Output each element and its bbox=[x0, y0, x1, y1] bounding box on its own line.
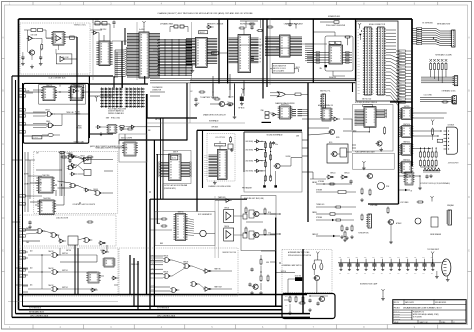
border ruler ticks bbox=[32, 2, 34, 6]
svg-text:88: 88 bbox=[141, 66, 143, 68]
svg-text:D2: D2 bbox=[260, 45, 262, 47]
svg-text:MIC: MIC bbox=[285, 305, 287, 307]
lcd tube q bbox=[367, 173, 372, 178]
svg-text:SMT: SMT bbox=[212, 53, 215, 55]
note box u18 bbox=[272, 64, 294, 74]
char bundle wires bbox=[302, 109, 308, 111]
svg-text:BD2: BD2 bbox=[399, 57, 402, 59]
lm com box bbox=[56, 54, 72, 64]
svg-text:SCL0: SCL0 bbox=[204, 155, 207, 157]
svg-text:SCL5: SCL5 bbox=[204, 166, 207, 168]
jack q1 bbox=[254, 211, 259, 216]
svg-text:88: 88 bbox=[219, 173, 221, 175]
sw ant bbox=[317, 254, 319, 258]
bus wrap y317 bbox=[12, 316, 310, 318]
svg-text:BD5: BD5 bbox=[399, 67, 402, 69]
svg-text:88: 88 bbox=[407, 177, 409, 179]
edge conn strip left bbox=[365, 27, 372, 95]
counter vert runs bbox=[24, 152, 26, 212]
svg-text:RED/BLUE: RED/BLUE bbox=[329, 77, 336, 79]
ground g1 bbox=[22, 62, 24, 64]
svg-text:SMT09: SMT09 bbox=[404, 106, 410, 108]
svg-text:88: 88 bbox=[281, 43, 283, 45]
bus wire x267 bbox=[266, 19, 268, 87]
svg-text:88: 88 bbox=[141, 37, 143, 39]
wire center v bbox=[212, 76, 214, 96]
shift right wires bbox=[343, 52, 353, 54]
svg-text:BD6: BD6 bbox=[399, 102, 402, 104]
svg-text:74HC02: 74HC02 bbox=[48, 251, 54, 253]
svg-text:VCC: VCC bbox=[190, 91, 193, 93]
svg-text:88: 88 bbox=[324, 111, 326, 113]
main frame bottom bbox=[19, 294, 308, 296]
sw resistors bbox=[313, 263, 316, 269]
svg-text:88: 88 bbox=[110, 130, 112, 132]
nmi ic U25 bbox=[176, 214, 186, 241]
left wires 3 bbox=[23, 229, 37, 231]
svg-text:88: 88 bbox=[177, 224, 179, 226]
svg-text:88: 88 bbox=[126, 150, 128, 152]
fan drop v bbox=[114, 50, 116, 78]
svg-text:STROBE: STROBE bbox=[316, 190, 322, 192]
thick v x202 bbox=[202, 130, 204, 188]
svg-text:88: 88 bbox=[101, 49, 103, 51]
bus wire x130 set bbox=[129, 255, 131, 295]
svg-text:P13: P13 bbox=[358, 66, 361, 68]
wire top h1 bbox=[90, 29, 102, 31]
svg-text:88: 88 bbox=[90, 280, 92, 282]
bus wire x263 bbox=[262, 19, 264, 98]
ic U11 bbox=[88, 272, 99, 283]
svg-text:88: 88 bbox=[170, 172, 172, 174]
kb row connector bbox=[452, 30, 455, 47]
alt sync box bbox=[282, 250, 332, 293]
svg-text:88: 88 bbox=[324, 116, 326, 118]
amp box1 bbox=[224, 210, 234, 223]
glue wires a bbox=[186, 118, 188, 140]
svg-text:74HC04: 74HC04 bbox=[224, 226, 229, 228]
svg-text:ULA DECODER: ULA DECODER bbox=[56, 217, 69, 220]
transistor Q3 bbox=[329, 129, 334, 134]
svg-text:88: 88 bbox=[101, 54, 103, 56]
jack r4 bbox=[245, 228, 247, 233]
lcd option box bbox=[207, 134, 235, 182]
svg-text:LM COM: LM COM bbox=[62, 57, 69, 59]
svg-text:88: 88 bbox=[281, 40, 283, 42]
svg-text:88: 88 bbox=[141, 61, 143, 63]
svg-text:INTERFACE: INTERFACE bbox=[209, 120, 219, 123]
bus wire x150 bbox=[149, 199, 151, 310]
label box bl bbox=[32, 136, 42, 139]
svg-text:TIMET OUT: TIMET OUT bbox=[214, 287, 222, 289]
svg-text:74HC02: 74HC02 bbox=[48, 285, 54, 287]
svg-text:88: 88 bbox=[197, 56, 199, 58]
svg-text:8097 in COMPE: 8097 in COMPE bbox=[121, 138, 132, 140]
svg-text:SCL1: SCL1 bbox=[204, 157, 207, 159]
svg-text:88: 88 bbox=[45, 89, 47, 91]
jack r5 bbox=[260, 260, 262, 265]
sound col verticals bbox=[265, 141, 267, 180]
ground g2 bbox=[40, 62, 42, 64]
svg-text:10n: 10n bbox=[372, 273, 374, 275]
svg-text:88: 88 bbox=[177, 237, 179, 239]
bus wire x280 bbox=[275, 218, 277, 306]
jack r1 bbox=[264, 209, 266, 214]
svg-text:88: 88 bbox=[403, 146, 405, 148]
line y220 bbox=[316, 219, 332, 221]
svg-text:MEMORY DECODE: MEMORY DECODE bbox=[207, 24, 224, 26]
cass bottom parts bbox=[316, 302, 319, 304]
svg-text:88: 88 bbox=[170, 175, 172, 177]
bottom gate cluster bbox=[165, 258, 169, 263]
thick v x89 bbox=[88, 76, 90, 138]
g2 wire bbox=[55, 124, 62, 126]
shift left wires bbox=[307, 52, 329, 54]
svg-text:EDGE CONNECTOR: EDGE CONNECTOR bbox=[369, 24, 386, 26]
svg-text:88: 88 bbox=[281, 109, 283, 111]
shift dark square bbox=[324, 65, 327, 67]
gate G17 bbox=[53, 287, 57, 292]
main frame top bbox=[19, 18, 413, 20]
svg-text:10n: 10n bbox=[339, 273, 341, 275]
svg-text:PRE LOGIC: PRE LOGIC bbox=[131, 264, 140, 266]
decoupling cap row bbox=[338, 262, 434, 264]
ic U3 osc bbox=[53, 32, 64, 45]
svg-text:LM COM: LM COM bbox=[31, 34, 38, 36]
thick h y84 bbox=[88, 83, 148, 85]
svg-text:LCH: LCH bbox=[268, 233, 271, 235]
svg-text:BD0: BD0 bbox=[399, 83, 402, 85]
svg-text:BD6: BD6 bbox=[399, 70, 402, 72]
svg-text:88: 88 bbox=[141, 48, 143, 50]
din gnd bbox=[436, 275, 438, 277]
gate G20 bbox=[208, 25, 211, 29]
svg-text:LED IN SEQ: LED IN SEQ bbox=[246, 149, 254, 151]
svg-text:88: 88 bbox=[197, 58, 199, 60]
attack q bbox=[388, 219, 393, 224]
svg-text:88: 88 bbox=[240, 40, 242, 42]
ic col left stubs bbox=[399, 109, 402, 111]
svg-text:LED IN SEQ: LED IN SEQ bbox=[246, 171, 254, 173]
counter top gates bbox=[69, 155, 73, 160]
boxB hc box bbox=[71, 85, 84, 98]
svg-text:DRAIN DETECTION CIRCUIT: DRAIN DETECTION CIRCUIT bbox=[203, 114, 226, 117]
svg-text:88: 88 bbox=[55, 39, 57, 41]
svg-text:88: 88 bbox=[141, 55, 143, 57]
svg-text:P14: P14 bbox=[358, 69, 361, 71]
smt box right bbox=[437, 139, 443, 142]
ic U12 cpu bbox=[99, 41, 110, 66]
svg-text:SMT/74LS*240: SMT/74LS*240 bbox=[362, 99, 371, 101]
lcd conn wires bbox=[420, 97, 453, 99]
small parts mid bbox=[120, 126, 124, 128]
rom box bbox=[353, 105, 394, 152]
svg-text:88: 88 bbox=[170, 162, 172, 164]
rom hatch left bbox=[355, 109, 365, 111]
lcd conn strip bbox=[453, 96, 456, 105]
mid right gates glue bbox=[331, 118, 334, 120]
svg-text:88: 88 bbox=[240, 37, 242, 39]
svg-text:88: 88 bbox=[197, 61, 199, 63]
svg-text:ON LED: ON LED bbox=[76, 128, 83, 130]
svg-text:CONNECTOR: CONNECTOR bbox=[152, 90, 161, 92]
svg-text:(128K/256K BITS ): (128K/256K BITS ) bbox=[164, 188, 177, 190]
bat transistor Q2 bbox=[219, 101, 224, 106]
svg-text:10n: 10n bbox=[397, 273, 399, 275]
svg-text:PIXEL SHIFT REGISTER: PIXEL SHIFT REGISTER bbox=[326, 25, 346, 27]
smt ip ic U23 bbox=[169, 154, 181, 181]
edge conn top parts bbox=[359, 25, 361, 29]
smt ip box bbox=[163, 151, 191, 184]
svg-text:88: 88 bbox=[240, 68, 242, 70]
diode matrix 1 bbox=[100, 88, 123, 90]
latch hatch left bbox=[265, 36, 280, 38]
svg-text:SCL4: SCL4 bbox=[204, 164, 207, 166]
top right small parts bbox=[443, 101, 447, 103]
bus corner x147 bbox=[146, 94, 148, 118]
svg-text:88: 88 bbox=[331, 53, 333, 55]
amp right conns bbox=[243, 214, 247, 219]
svg-text:88: 88 bbox=[407, 180, 409, 182]
top row parts2 bbox=[240, 20, 258, 22]
cassette parts bbox=[319, 296, 324, 301]
svg-text:88: 88 bbox=[197, 50, 199, 52]
svg-text:88: 88 bbox=[281, 116, 283, 118]
svg-text:88: 88 bbox=[197, 53, 199, 55]
kb col resistors bbox=[429, 59, 432, 62]
gate G14 bbox=[100, 241, 104, 245]
lower wires more bbox=[23, 251, 29, 253]
wire t1 bbox=[46, 37, 53, 39]
shift label boxes bbox=[329, 41, 335, 44]
svg-text:88: 88 bbox=[407, 182, 409, 184]
right mid parts bbox=[399, 175, 406, 177]
sound box right bbox=[244, 132, 302, 192]
diode cluster bbox=[424, 168, 427, 171]
gate G23 bbox=[121, 127, 124, 130]
mid band wires bbox=[150, 91, 165, 93]
svg-text:DESIGNED: DESIGNED bbox=[393, 314, 400, 316]
svg-text:KBD PULL P.U.: KBD PULL P.U. bbox=[320, 91, 331, 93]
frame right x355 bbox=[355, 19, 357, 81]
ic U18 latch bbox=[280, 35, 291, 57]
svg-text:88: 88 bbox=[331, 48, 333, 50]
freq conn bbox=[448, 210, 451, 225]
svg-text:88: 88 bbox=[141, 35, 143, 37]
left wires 2 bbox=[29, 160, 31, 199]
svg-text:BD4: BD4 bbox=[399, 64, 402, 66]
svg-text:88: 88 bbox=[41, 210, 43, 212]
thick h y130 bbox=[197, 129, 302, 131]
svg-text:P18: P18 bbox=[358, 81, 361, 83]
svg-text:88: 88 bbox=[90, 277, 92, 279]
svg-text:TIMING LOGIC: TIMING LOGIC bbox=[74, 25, 87, 27]
svg-text:P19: P19 bbox=[358, 84, 361, 86]
svg-text:88: 88 bbox=[331, 58, 333, 60]
svg-text:SCL6: SCL6 bbox=[204, 168, 207, 170]
svg-text:BD2: BD2 bbox=[399, 89, 402, 91]
svg-text:SMT76: SMT76 bbox=[20, 196, 24, 198]
svg-text:P15: P15 bbox=[358, 72, 361, 74]
svg-text:1:1: 1:1 bbox=[453, 322, 455, 324]
svg-text:SMT74: SMT74 bbox=[20, 204, 24, 206]
svg-text:D7: D7 bbox=[260, 61, 262, 63]
svg-text:LED IN SEQ: LED IN SEQ bbox=[246, 161, 254, 163]
svg-text:88: 88 bbox=[366, 112, 368, 114]
svg-text:88: 88 bbox=[170, 164, 172, 166]
svg-text:TO POWER INPUT: TO POWER INPUT bbox=[427, 249, 439, 251]
svg-text:74HC08: 74HC08 bbox=[163, 272, 168, 274]
ula dec wires bbox=[44, 231, 52, 233]
svg-text:KEYBOARD BUS: KEYBOARD BUS bbox=[29, 310, 45, 313]
pre logic box bbox=[119, 248, 238, 296]
svg-text:DIN 8BLE: DIN 8BLE bbox=[448, 125, 454, 127]
latch hatch right bbox=[290, 36, 302, 38]
svg-text:BD1: BD1 bbox=[399, 86, 402, 88]
svg-text:88: 88 bbox=[126, 152, 128, 154]
op-amp U2 bbox=[56, 36, 61, 42]
svg-text:Z80 CPU: Z80 CPU bbox=[100, 29, 106, 31]
svg-text:SHEET 1 OF 1: SHEET 1 OF 1 bbox=[420, 322, 429, 324]
svg-text:SMT: SMT bbox=[438, 141, 441, 143]
smt label box bbox=[212, 52, 219, 55]
antenna box2 bbox=[353, 153, 395, 169]
led oval bbox=[48, 133, 53, 136]
svg-text:SMT70: SMT70 bbox=[20, 270, 24, 272]
thick drop x125 bbox=[124, 28, 126, 45]
thick corner y102 bbox=[390, 101, 412, 103]
svg-text:LCD CONN: LCD CONN bbox=[424, 95, 432, 97]
svg-text:BD0: BD0 bbox=[399, 51, 402, 53]
svg-text:88: 88 bbox=[403, 113, 405, 115]
counter box bbox=[34, 151, 118, 213]
svg-text:88: 88 bbox=[366, 122, 368, 124]
svg-text:SMT700: SMT700 bbox=[62, 253, 68, 255]
svg-text:D6: D6 bbox=[260, 58, 262, 60]
svg-text:88: 88 bbox=[170, 177, 172, 179]
svg-text:STROBE: STROBE bbox=[318, 181, 324, 183]
nmi left parts bbox=[162, 218, 166, 220]
wire joins bbox=[240, 44, 263, 46]
svg-text:MOD: MOD bbox=[329, 142, 332, 144]
svg-text:10n: 10n bbox=[414, 273, 416, 275]
gate G18 bbox=[103, 250, 107, 254]
counter ic U9 bbox=[39, 200, 54, 215]
svg-text:88: 88 bbox=[40, 190, 42, 192]
svg-text:SCL3: SCL3 bbox=[204, 162, 207, 164]
edge conn upper right wires bbox=[386, 29, 396, 31]
gate G15 bbox=[53, 253, 57, 258]
svg-text:88: 88 bbox=[110, 127, 112, 129]
svg-text:88: 88 bbox=[101, 46, 103, 48]
din connector bbox=[442, 259, 451, 276]
bus wire x308 bbox=[307, 83, 309, 222]
svg-text:BD4: BD4 bbox=[399, 96, 402, 98]
res R7 bbox=[128, 128, 132, 130]
svg-text:74HC00: 74HC00 bbox=[100, 250, 105, 252]
svg-text:88: 88 bbox=[331, 61, 333, 63]
svg-text:SMT: SMT bbox=[106, 117, 110, 119]
address bus vlines bbox=[164, 39, 166, 76]
svg-text:SMT709: SMT709 bbox=[66, 250, 71, 252]
or gate G26b bbox=[278, 92, 286, 97]
antenna A2 bbox=[242, 90, 244, 94]
svg-text:88: 88 bbox=[240, 63, 242, 65]
svg-text:88: 88 bbox=[403, 116, 405, 118]
rom ic U27 bbox=[364, 107, 376, 128]
bus wrap y306 bbox=[23, 305, 283, 307]
diode matrix 2 bbox=[125, 88, 145, 90]
svg-text:74/HC02: 74/HC02 bbox=[33, 137, 38, 139]
thick v x219 bbox=[218, 19, 220, 84]
sound res col2 bbox=[270, 143, 272, 148]
sound bottom caps bbox=[263, 185, 266, 187]
thick x352 seg bbox=[352, 83, 354, 92]
jack r3 bbox=[264, 230, 266, 235]
lcd tube parts bbox=[361, 189, 363, 194]
svg-text:88: 88 bbox=[141, 42, 143, 44]
ram hatch right bbox=[149, 33, 160, 35]
svg-text:88: 88 bbox=[101, 57, 103, 59]
svg-text:88: 88 bbox=[403, 151, 405, 153]
thick drop x122 bbox=[121, 41, 123, 88]
svg-text:TURBO LED: TURBO LED bbox=[316, 204, 324, 206]
lower gates wires bbox=[28, 254, 51, 256]
gate G22 bbox=[98, 125, 101, 128]
svg-text:LED IN SEQ: LED IN SEQ bbox=[246, 141, 254, 143]
svg-text:88: 88 bbox=[219, 162, 221, 164]
svg-text:88: 88 bbox=[41, 208, 43, 210]
bus wire x187 bbox=[186, 83, 188, 140]
svg-text:74HC08: 74HC08 bbox=[183, 262, 188, 264]
svg-text:P10: P10 bbox=[358, 58, 361, 60]
nmi right fan bbox=[186, 218, 195, 220]
svg-text:DWG MK14/9501: DWG MK14/9501 bbox=[435, 302, 446, 304]
svg-text:SMT717: SMT717 bbox=[68, 153, 73, 155]
lcd ic U22 bbox=[217, 150, 227, 180]
svg-text:JOYSTICK PORT: JOYSTICK PORT bbox=[448, 162, 459, 164]
lcd gnd bbox=[214, 181, 216, 183]
svg-text:IORQ: IORQ bbox=[151, 289, 154, 291]
cpu op-amp U13 bbox=[94, 31, 97, 35]
svg-text:88: 88 bbox=[219, 152, 221, 154]
svg-text:TURBO LED: TURBO LED bbox=[66, 112, 74, 114]
counter extra bbox=[62, 156, 66, 158]
svg-text:SMT701: SMT701 bbox=[62, 270, 68, 272]
bus wire left v1 bbox=[11, 76, 13, 317]
svg-text:CPU CONTROL BUS: CPU CONTROL BUS bbox=[30, 315, 49, 317]
jack r6 bbox=[260, 266, 262, 275]
flipflop U7 bbox=[70, 87, 82, 101]
svg-text:88: 88 bbox=[240, 66, 242, 68]
bat parts2 bbox=[210, 103, 219, 105]
amp gate top bbox=[226, 199, 229, 203]
jack wires bbox=[260, 213, 276, 215]
mounting symbol bbox=[382, 291, 384, 295]
svg-text:CHANGE (SELECT) KEY PATCHES FO: CHANGE (SELECT) KEY PATCHES FOR MODULATO… bbox=[157, 12, 253, 15]
svg-text:DRV BUS: DRV BUS bbox=[212, 127, 219, 129]
svg-text:88: 88 bbox=[40, 187, 42, 189]
svg-text:88: 88 bbox=[72, 94, 74, 96]
thick drops matrix bbox=[113, 76, 115, 88]
mid strip extra2 bbox=[316, 213, 330, 215]
svg-text:74HC74: 74HC74 bbox=[46, 85, 53, 87]
res grid bbox=[420, 152, 422, 157]
cap C1 bbox=[21, 56, 24, 58]
svg-text:D5: D5 bbox=[260, 55, 262, 57]
svg-text:ON LED: ON LED bbox=[75, 114, 82, 116]
timing logic box bbox=[20, 23, 90, 74]
